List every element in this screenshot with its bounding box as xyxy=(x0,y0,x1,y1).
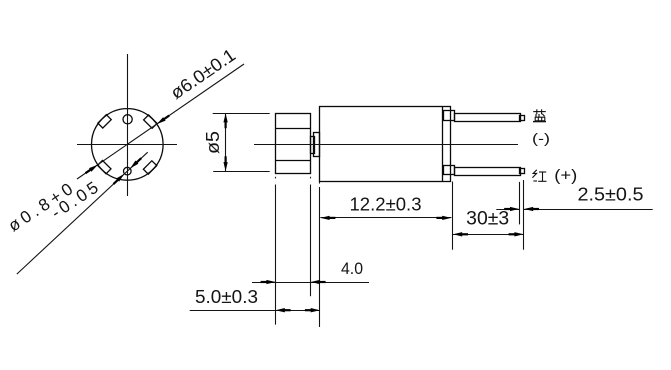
svg-text:4.0: 4.0 xyxy=(341,259,363,278)
svg-text:2.5±0.5: 2.5±0.5 xyxy=(578,184,644,204)
svg-text:ø5: ø5 xyxy=(203,131,223,154)
svg-text:(+): (+) xyxy=(554,168,577,185)
svg-text:ø6.0±0.1: ø6.0±0.1 xyxy=(167,45,239,103)
svg-text:(-): (-) xyxy=(532,130,550,146)
svg-text:30±3: 30±3 xyxy=(466,209,509,230)
svg-text:5.0±0.3: 5.0±0.3 xyxy=(195,287,258,307)
svg-text:12.2±0.3: 12.2±0.3 xyxy=(350,194,422,214)
svg-text:-0.05: -0.05 xyxy=(48,178,102,223)
